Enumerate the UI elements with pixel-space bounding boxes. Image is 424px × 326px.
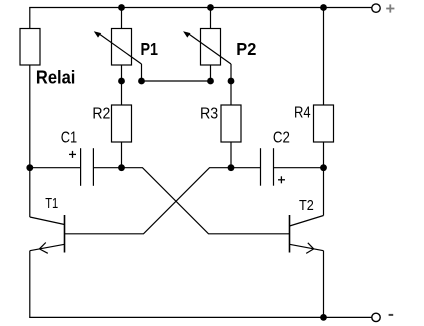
- capacitor C2 plate right: [273, 148, 275, 186]
- label C2 plus sign: [278, 179, 285, 181]
- transistor T1 emitter arrow: [39, 243, 47, 254]
- resistor R2: [112, 105, 132, 142]
- label C1 plus sign: [69, 153, 76, 155]
- terminal - circle: [372, 313, 380, 321]
- node top P1: [118, 4, 125, 11]
- svg-text:P1: P1: [141, 39, 159, 59]
- wire P2 top: [210, 8, 212, 29]
- node C1 left / T1 collector: [26, 164, 33, 171]
- transistor T2 emitter lead: [290, 244, 324, 250]
- wire wiper row P1 to P2: [142, 80, 211, 82]
- transistor T2 emitter arrow: [306, 243, 314, 254]
- svg-text:C1: C1: [61, 129, 77, 146]
- svg-text:T1: T1: [45, 195, 58, 212]
- wire C1 left: [30, 167, 81, 169]
- node P1 wiper: [138, 78, 145, 85]
- wire relay bottom / T1 collector column: [29, 65, 31, 217]
- terminal + circle: [372, 4, 380, 12]
- potentiometer P1 wiper arrow line: [98, 33, 142, 64]
- node R3 C2: [228, 164, 235, 171]
- resistor R3: [221, 105, 241, 142]
- wire P1 bottom: [121, 65, 123, 105]
- potentiometer P2 body: [201, 29, 221, 66]
- potentiometer P2 arrowhead: [183, 31, 190, 37]
- wire P1 top: [121, 8, 123, 29]
- node top P2: [207, 4, 214, 11]
- svg-text:P2: P2: [236, 39, 256, 59]
- capacitor C1 plate right: [92, 148, 94, 186]
- wire R4 bottom to T2 collector: [323, 142, 325, 216]
- wire R2 bottom: [121, 142, 123, 168]
- wire C2 right to node: [274, 167, 324, 169]
- svg-text:Relai: Relai: [36, 67, 76, 88]
- resistor R4: [314, 105, 334, 142]
- wire P1 wiper down: [141, 64, 143, 81]
- wire T2 emitter down: [323, 251, 325, 318]
- node T2 emitter bottom: [320, 314, 327, 321]
- node R2 C1: [118, 164, 125, 171]
- svg-text:T2: T2: [299, 197, 314, 214]
- label terminal plus: [386, 8, 394, 10]
- wire R3 bottom: [230, 142, 232, 168]
- wire P2 wiper down: [230, 64, 232, 81]
- transistor T1 base bar: [64, 215, 66, 253]
- transistor T1 emitter lead: [30, 244, 65, 250]
- transistor T2 collector lead: [290, 216, 324, 227]
- capacitor C2 plate left: [260, 148, 262, 186]
- relay "Relai": [20, 29, 40, 66]
- wire R3 top: [230, 81, 232, 105]
- potentiometer P1 arrowhead: [94, 31, 101, 37]
- potentiometer P2 wiper arrow line: [187, 33, 231, 64]
- node P2 bottom: [207, 78, 214, 85]
- svg-text:R2: R2: [92, 106, 110, 123]
- node top R4: [320, 4, 327, 11]
- label terminal minus: [389, 314, 394, 316]
- wire T1 emitter down: [29, 251, 31, 318]
- wire node R2C1 to cross: [122, 168, 290, 234]
- wire C1 right to node: [93, 167, 121, 169]
- wire bottom rail: [29, 316, 372, 318]
- svg-text:R3: R3: [200, 105, 218, 122]
- transistor T1 collector lead: [30, 217, 65, 225]
- wire R4 top: [323, 8, 325, 106]
- svg-text:R4: R4: [294, 104, 311, 121]
- transistor T2 base bar: [289, 215, 291, 253]
- svg-text:C2: C2: [273, 129, 290, 146]
- node C2 R4: [320, 164, 327, 171]
- wire top rail: [29, 7, 372, 9]
- potentiometer P1 body: [112, 29, 132, 66]
- wire node R3C2 to cross: [65, 168, 232, 234]
- node P2 wiper: [228, 78, 235, 85]
- node P1 bottom: [118, 78, 125, 85]
- capacitor C1 plate left: [80, 148, 82, 186]
- wire P2 bottom: [210, 65, 212, 81]
- wire relay top: [29, 8, 31, 29]
- wire C2 left: [231, 167, 261, 169]
